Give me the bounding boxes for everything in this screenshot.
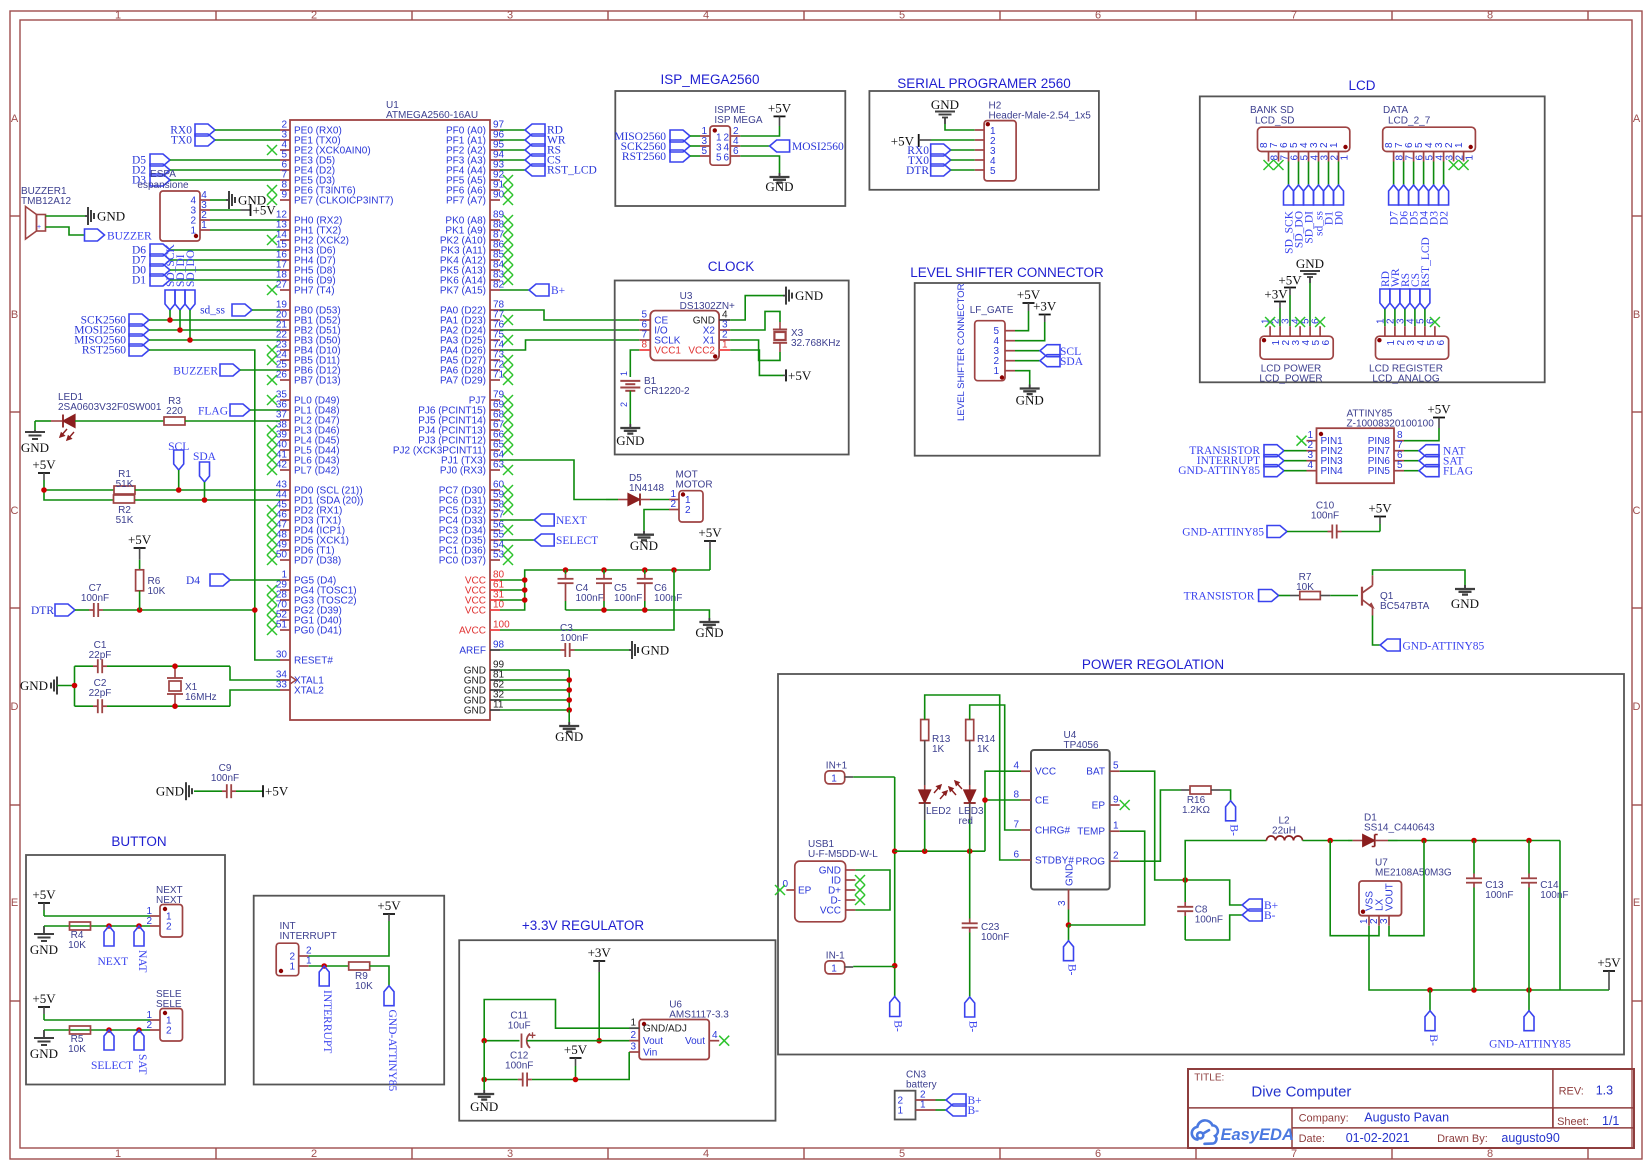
svg-text:22pF: 22pF — [89, 688, 112, 699]
svg-text:GND: GND — [630, 538, 658, 553]
wire PROG to R16 — [1120, 790, 1181, 861]
svg-text:Dive Computer: Dive Computer — [1251, 1083, 1351, 1100]
wire LED1 to R3 — [75, 420, 164, 422]
svg-text:1: 1 — [1340, 155, 1351, 161]
wire PA0 to clock CE — [500, 310, 639, 320]
svg-text:PB7 (D13): PB7 (D13) — [294, 376, 341, 387]
svg-text:3: 3 — [1057, 900, 1068, 906]
svg-text:4: 4 — [712, 1030, 718, 1041]
svg-text:GND-ATTINY85: GND-ATTINY85 — [1403, 641, 1485, 653]
svg-text:TMB12A12: TMB12A12 — [21, 196, 71, 207]
svg-text:Vout: Vout — [643, 1036, 663, 1047]
connector LCD_POWER — [1260, 336, 1333, 359]
wire R6 to reset net — [139, 591, 141, 610]
svg-text:D0: D0 — [1334, 211, 1346, 225]
+3V at level shifter — [1039, 314, 1051, 316]
svg-text:Drawn By:: Drawn By: — [1437, 1133, 1488, 1145]
ground at Q1 — [1464, 585, 1466, 589]
wire espansione pin3 to +5V — [210, 209, 241, 211]
svg-text:IN-1: IN-1 — [826, 951, 845, 962]
svg-text:100nF: 100nF — [654, 593, 682, 604]
svg-text:PROG: PROG — [1076, 857, 1106, 868]
svg-text:red: red — [959, 816, 973, 827]
svg-text:PIN5: PIN5 — [1368, 466, 1391, 477]
resistor R6 10K — [139, 560, 141, 570]
svg-text:1: 1 — [1113, 821, 1119, 832]
USB1 EP pin — [786, 889, 795, 891]
wire ISP pin6 to GND — [740, 156, 779, 173]
svg-text:PD7 (D38): PD7 (D38) — [294, 556, 341, 567]
svg-text:16MHz: 16MHz — [185, 692, 217, 703]
wire INT pin2 to +5V — [309, 921, 389, 956]
wire SD_DI down to PB2 net — [179, 310, 181, 330]
svg-text:DTR: DTR — [906, 165, 929, 177]
svg-text:+5V: +5V — [768, 100, 792, 115]
svg-text:7: 7 — [1291, 10, 1297, 22]
svg-text:RST2560: RST2560 — [622, 151, 666, 163]
wire SD_DO down to PB3 net — [189, 310, 191, 340]
wire SCK2560 to PB1 — [149, 319, 280, 321]
svg-text:3: 3 — [630, 1042, 636, 1053]
svg-text:10K: 10K — [68, 1044, 86, 1055]
svg-text:100nF: 100nF — [981, 932, 1009, 943]
svg-text:RST_LCD: RST_LCD — [547, 165, 597, 177]
wires LCD_SD pins to flags — [1288, 162, 1290, 186]
section box INTERRUPT — [254, 896, 445, 1085]
ground below battery — [629, 424, 631, 428]
svg-text:Vin: Vin — [643, 1048, 657, 1059]
svg-text:GND: GND — [1016, 393, 1044, 408]
wire C7 to reset net — [103, 609, 255, 611]
wire IN-1 to B- net — [853, 966, 895, 968]
svg-text:D1: D1 — [132, 275, 146, 287]
svg-text:NEXT: NEXT — [556, 515, 587, 527]
ground at AREF — [629, 649, 632, 651]
net flag B- below C23 — [965, 997, 975, 1017]
x-marks LCD_POWER pins 1 4 6 — [1265, 317, 1275, 327]
wire gnd to LCD_POWER pin5 — [1309, 283, 1311, 326]
svg-text:2: 2 — [619, 402, 629, 407]
net flags RD WR RS CS RST_LCD — [500, 129, 525, 131]
x-mark U6 Vout right — [719, 1036, 729, 1046]
U1 power pins — [490, 579, 500, 581]
led LED2 — [924, 741, 926, 786]
svg-text:RESET#: RESET# — [294, 656, 333, 667]
svg-text:1: 1 — [1454, 142, 1465, 148]
wire +5V to R1 R2 — [44, 480, 114, 500]
wire espansione pin2 to PH0 — [210, 219, 280, 221]
svg-text:EP: EP — [798, 886, 812, 897]
svg-text:SAT: SAT — [136, 1054, 148, 1074]
ground at level shifter — [1029, 385, 1031, 389]
EasyEDA logo — [1192, 1120, 1218, 1143]
svg-text:+3V: +3V — [1033, 299, 1057, 314]
wire PJ1 to D5 diode — [500, 460, 606, 500]
svg-text:VOUT: VOUT — [1385, 883, 1396, 911]
svg-text:GND: GND — [97, 209, 125, 224]
svg-text:3: 3 — [1379, 918, 1390, 924]
svg-text:SCL: SCL — [168, 441, 189, 453]
ground at clock (rotated) — [783, 295, 786, 297]
net flag B- at CN3 — [946, 1104, 966, 1116]
svg-text:100nF: 100nF — [1485, 890, 1513, 901]
svg-text:1: 1 — [722, 340, 728, 351]
net flag B- at battery — [1242, 909, 1262, 921]
svg-text:C: C — [1633, 505, 1641, 517]
svg-text:TEMP: TEMP — [1077, 827, 1105, 838]
svg-text:GND: GND — [21, 440, 49, 455]
crystal X1 16MHz — [174, 666, 176, 678]
svg-text:1.2KΩ: 1.2KΩ — [1182, 805, 1211, 816]
svg-text:D: D — [1633, 701, 1641, 713]
resistor R5 10K — [70, 1026, 91, 1034]
svg-text:2: 2 — [670, 499, 676, 510]
svg-text:LCD_POWER: LCD_POWER — [1259, 374, 1322, 385]
wire RST2560 down to reset net — [149, 350, 280, 660]
svg-text:GND-ATTINY85: GND-ATTINY85 — [1489, 1039, 1571, 1051]
svg-text:+5V: +5V — [265, 784, 289, 799]
svg-text:6: 6 — [1095, 10, 1101, 22]
wire rail down from D1 — [1559, 841, 1561, 991]
wire C8 to B- flag — [1185, 915, 1242, 940]
+5V above VCC bus — [704, 540, 716, 542]
svg-text:GND: GND — [30, 1046, 58, 1061]
svg-text:5: 5 — [1113, 761, 1119, 772]
wire INT pin1 to R9 — [309, 965, 349, 967]
+5V at power output — [1603, 970, 1615, 972]
wire gnd to H2 pin1 — [945, 124, 975, 130]
svg-text:GND: GND — [1065, 864, 1076, 886]
wire to XTAL1 — [230, 666, 280, 680]
svg-text:E: E — [1633, 897, 1640, 909]
svg-text:GND: GND — [464, 706, 486, 717]
svg-text:LCD_SD: LCD_SD — [1255, 116, 1294, 127]
svg-text:GND: GND — [30, 942, 58, 957]
wire U3 GND pin to ground — [730, 296, 783, 320]
svg-text:1K: 1K — [932, 744, 945, 755]
wire buzzer to BUZZER flag — [46, 227, 85, 235]
svg-text:5: 5 — [899, 10, 905, 22]
svg-text:PE7 (CLKOICP3INT7): PE7 (CLKOICP3INT7) — [294, 196, 393, 207]
svg-text:100nF: 100nF — [614, 593, 642, 604]
net flag MOSI2560 — [740, 145, 769, 147]
svg-text:GND: GND — [616, 433, 644, 448]
svg-text:+5V: +5V — [32, 887, 56, 902]
svg-text:8: 8 — [641, 340, 647, 351]
svg-text:1: 1 — [619, 371, 629, 376]
wire SDA to PD1 net — [204, 482, 206, 500]
wires U1 GND pins to ground — [500, 669, 569, 671]
wire SD_SCK down to PB1 net — [169, 310, 171, 320]
svg-text:PC0 (D37): PC0 (D37) — [439, 556, 486, 567]
+5V at level shifter — [1023, 302, 1035, 304]
svg-text:B-: B- — [967, 1021, 979, 1033]
wire pin5 to +5V — [1015, 311, 1029, 331]
svg-text:PH7 (T4): PH7 (T4) — [294, 286, 335, 297]
svg-text:BAT: BAT — [1086, 767, 1105, 778]
ground at ISP — [779, 173, 781, 177]
svg-text:B-: B- — [1228, 824, 1240, 836]
svg-text:100nF: 100nF — [1311, 511, 1339, 522]
svg-text:1: 1 — [630, 1018, 636, 1029]
svg-text:D4: D4 — [186, 575, 200, 587]
net flag NAT (vertical) — [134, 926, 144, 946]
+5V at ATTINY85 — [1433, 417, 1445, 419]
svg-text:Company:: Company: — [1299, 1113, 1349, 1125]
svg-text:Augusto Pavan: Augusto Pavan — [1364, 1111, 1449, 1125]
net flag NEXT (vertical) — [104, 926, 114, 946]
net flag GND-ATTINY85 (vertical) — [384, 986, 394, 1006]
net flag GND-ATTINY85 below rail — [1528, 990, 1530, 1011]
wire +3V to Vout net — [598, 972, 600, 1041]
svg-text:AVCC: AVCC — [459, 626, 486, 637]
svg-text:+5V: +5V — [788, 368, 812, 383]
svg-text:8: 8 — [1487, 1148, 1493, 1160]
svg-text:VCC1: VCC1 — [654, 346, 681, 357]
svg-text:10K: 10K — [68, 940, 86, 951]
svg-text:A: A — [1633, 113, 1641, 125]
net flag SDA at level shifter — [1015, 360, 1040, 362]
svg-text:SERIAL PROGRAMER 2560: SERIAL PROGRAMER 2560 — [897, 76, 1071, 91]
svg-text:BUZZER: BUZZER — [173, 366, 218, 378]
svg-text:SS14_C440643: SS14_C440643 — [1364, 823, 1435, 834]
wire CN3 pin1 to B- — [936, 1109, 947, 1111]
wire +5V to LCD_POWER pin3 — [1289, 295, 1291, 326]
wire AVCC to +5V bus — [500, 570, 674, 630]
svg-text:2SA0603V32F0SW001: 2SA0603V32F0SW001 — [58, 402, 162, 413]
+5V at espansione — [250, 204, 252, 216]
wire PA2 to clock I/O — [500, 329, 639, 331]
wire R13 top loop to STDBY# — [925, 695, 1021, 860]
wire U4 gnd pin3 down — [1068, 910, 1070, 926]
wire buzzer to GND — [46, 215, 86, 217]
wire R3 to PL2 — [185, 420, 280, 422]
wire Q1 collector to GND — [1373, 570, 1466, 585]
resistor R4 10K — [70, 922, 91, 930]
wire X1 to crystal — [730, 340, 780, 360]
svg-text:GND-ATTINY85: GND-ATTINY85 — [1182, 527, 1264, 539]
svg-text:RST2560: RST2560 — [82, 345, 126, 357]
wire Q1 emitter to flag — [1373, 616, 1381, 646]
svg-text:1: 1 — [115, 1148, 121, 1160]
svg-text:27: 27 — [276, 280, 288, 291]
svg-text:+5V: +5V — [1368, 501, 1392, 516]
svg-text:PG0 (D41): PG0 (D41) — [294, 626, 342, 637]
svg-text:+3.3V REGULATOR: +3.3V REGULATOR — [522, 918, 644, 933]
svg-text:1N4148: 1N4148 — [629, 483, 664, 494]
svg-text:PJ0 (RX3): PJ0 (RX3) — [440, 466, 486, 477]
resistor R9 10K — [349, 962, 370, 970]
svg-text:10uF: 10uF — [508, 1021, 531, 1032]
x-mark U4 EP pin — [1120, 800, 1130, 810]
svg-text:GND: GND — [641, 643, 669, 658]
+5V at INT — [383, 913, 395, 915]
svg-text:5: 5 — [716, 153, 722, 164]
net flag INTERRUPT (vertical) — [319, 966, 329, 986]
svg-text:NEXT: NEXT — [98, 956, 129, 968]
wire C11 to Vout pin — [599, 1040, 639, 1042]
svg-text:5: 5 — [990, 166, 996, 177]
svg-text:Sheet:: Sheet: — [1557, 1116, 1589, 1128]
svg-text:100nF: 100nF — [211, 773, 239, 784]
wire VCC2 to +5V — [730, 350, 783, 375]
svg-text:SDA: SDA — [1060, 356, 1084, 368]
svg-text:10: 10 — [493, 600, 505, 611]
svg-text:7: 7 — [1291, 1148, 1297, 1160]
svg-text:espansione: espansione — [137, 180, 189, 191]
svg-text:XTAL2: XTAL2 — [294, 686, 324, 697]
svg-text:SELECT: SELECT — [91, 1060, 133, 1072]
svg-text:51: 51 — [276, 620, 288, 631]
wire +5V to H2 pin2 — [931, 139, 975, 141]
svg-text:30: 30 — [276, 650, 288, 661]
svg-text:42: 42 — [276, 460, 288, 471]
svg-text:A: A — [11, 113, 19, 125]
svg-text:CHRG#: CHRG# — [1035, 826, 1070, 837]
svg-text:5: 5 — [1397, 460, 1403, 471]
svg-text:22uH: 22uH — [1272, 826, 1296, 837]
svg-text:GND: GND — [795, 288, 823, 303]
wire to XTAL2 — [230, 690, 280, 706]
wire VCC CE to vbus — [985, 771, 1021, 851]
svg-text:53: 53 — [493, 550, 505, 561]
svg-text:LCD_ANALOG: LCD_ANALOG — [1372, 374, 1439, 385]
net flag SELECT at PC2 — [500, 539, 534, 541]
ground at buzzer — [85, 215, 88, 217]
svg-text:EP: EP — [1092, 801, 1106, 812]
net flag B- below IN-1 — [890, 997, 900, 1017]
svg-text:AREF: AREF — [459, 646, 486, 657]
net flag BUZZER (buzzer side) — [85, 229, 105, 241]
svg-text:GND-ATTINY85: GND-ATTINY85 — [1178, 465, 1260, 477]
svg-text:GND: GND — [1296, 256, 1324, 271]
svg-text:1: 1 — [831, 964, 837, 975]
svg-text:GND: GND — [470, 1099, 498, 1114]
+5V at ISP — [774, 115, 786, 117]
svg-text:+5V: +5V — [128, 532, 152, 547]
svg-text:6: 6 — [1436, 340, 1447, 346]
wire TEMP to gnd net — [1069, 831, 1145, 925]
svg-text:10K: 10K — [355, 981, 373, 992]
mcu U1 ATMEGA2560-16AU body — [290, 120, 490, 720]
x-marks LCD_SD pins 8 7 — [1264, 160, 1274, 170]
net flag B+ at PK7 — [500, 289, 529, 291]
svg-text:D: D — [11, 701, 19, 713]
wires LCD_2_7 pins to flags — [1393, 162, 1395, 186]
svg-text:1: 1 — [1329, 142, 1340, 148]
svg-text:100nF: 100nF — [1540, 890, 1568, 901]
svg-text:90: 90 — [493, 190, 505, 201]
x-mark ATTINY85 pin1 — [1297, 436, 1307, 446]
svg-text:8: 8 — [1487, 10, 1493, 22]
svg-text:SELECT: SELECT — [556, 535, 598, 547]
x-mark LCD_ANALOG pin 6 — [1430, 317, 1440, 327]
wire +3V to LCD_POWER pin2 — [1279, 308, 1281, 326]
wire +5V bus to VCC pins — [500, 570, 710, 610]
wire espansione pin4 to GND — [210, 199, 226, 201]
wire Vin loop — [532, 1052, 629, 1080]
svg-text:IN+1: IN+1 — [826, 761, 848, 772]
svg-text:RST_LCD: RST_LCD — [1420, 237, 1432, 287]
svg-text:2: 2 — [311, 1148, 317, 1160]
svg-text:01-02-2021: 01-02-2021 — [1346, 1131, 1410, 1145]
wire Vin down to +5V rail — [628, 1040, 630, 1042]
svg-text:+3V: +3V — [588, 945, 612, 960]
svg-text:98: 98 — [493, 640, 505, 651]
svg-text:ME2108A50M3G: ME2108A50M3G — [1375, 868, 1452, 879]
wire MISO2560 to PB3 — [149, 339, 280, 341]
svg-text:100: 100 — [493, 620, 510, 631]
net flag B- at R16 — [1226, 801, 1236, 821]
svg-text:VCC2: VCC2 — [688, 346, 715, 357]
svg-text:1K: 1K — [977, 744, 990, 755]
svg-text:B: B — [11, 309, 18, 321]
svg-text:BANK SD: BANK SD — [1250, 105, 1294, 116]
svg-text:+3V: +3V — [1264, 287, 1288, 302]
crystal X3 32.768KHz — [773, 329, 787, 331]
wire CN3 pin2 to B+ — [936, 1099, 947, 1101]
x-marks LCD_2_7 pins 2 1 — [1449, 160, 1459, 170]
svg-text:+5V: +5V — [1427, 402, 1451, 417]
svg-text:5: 5 — [899, 1148, 905, 1160]
svg-text:POWER REGOLATION: POWER REGOLATION — [1082, 657, 1224, 672]
resistor R2 51K — [114, 495, 135, 503]
svg-text:1: 1 — [115, 10, 121, 22]
ground at cap bus — [708, 618, 710, 622]
resistor R1 51K — [114, 486, 135, 494]
ground below LED1 — [34, 421, 36, 430]
svg-text:NAT: NAT — [136, 950, 148, 972]
wire BAT rail to L2 — [1185, 841, 1266, 881]
wire espansione pin1 to PH1 — [210, 229, 280, 231]
svg-text:GND-ATTINY85: GND-ATTINY85 — [386, 1010, 398, 1092]
svg-text:+5V: +5V — [564, 1042, 588, 1057]
svg-text:82: 82 — [493, 280, 505, 291]
svg-text:4: 4 — [1307, 460, 1313, 471]
svg-text:LED2: LED2 — [926, 806, 951, 817]
vbus vertical wire — [894, 777, 896, 997]
svg-text:VCC: VCC — [1035, 767, 1056, 778]
svg-text:B-: B- — [1264, 910, 1276, 922]
svg-text:+5V: +5V — [32, 457, 56, 472]
svg-text:ISP_MEGA2560: ISP_MEGA2560 — [660, 72, 759, 87]
svg-text:51K: 51K — [116, 515, 134, 526]
+5V at clock (rotated) — [785, 369, 787, 381]
svg-text:CE: CE — [1035, 796, 1049, 807]
svg-text:B-: B- — [1066, 964, 1078, 976]
svg-text:1/1: 1/1 — [1602, 1114, 1619, 1128]
svg-text:B-: B- — [1427, 1034, 1439, 1046]
svg-text:PA7 (D29): PA7 (D29) — [440, 376, 486, 387]
wire L2 to D1 — [1303, 840, 1349, 842]
svg-text:GND: GND — [931, 97, 959, 112]
svg-text:DTR: DTR — [31, 605, 54, 617]
svg-text:+5V: +5V — [253, 203, 277, 218]
svg-text:VCC: VCC — [820, 906, 841, 917]
svg-text:1: 1 — [306, 956, 312, 967]
svg-text:63: 63 — [493, 460, 505, 471]
svg-text:C: C — [11, 505, 19, 517]
svg-text:TITLE:: TITLE: — [1194, 1073, 1224, 1084]
svg-text:LCD: LCD — [1348, 78, 1375, 93]
net flag B- below U4 — [1064, 941, 1074, 961]
vbus horizontal rail — [895, 850, 985, 852]
svg-text:PK7 (A15): PK7 (A15) — [440, 286, 486, 297]
svg-text:1: 1 — [920, 1100, 926, 1111]
svg-text:100nF: 100nF — [560, 633, 588, 644]
svg-text:REV:: REV: — [1559, 1086, 1584, 1098]
svg-text:BUTTON: BUTTON — [111, 834, 166, 849]
